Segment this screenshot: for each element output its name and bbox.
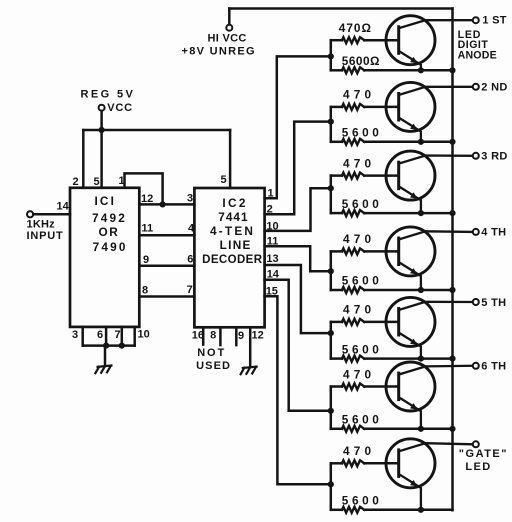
wire stage6 base lead right (364, 385, 399, 388)
wire IC2 pin 8 stub (219, 327, 222, 345)
transistor Q7 collector (399, 443, 472, 451)
wire IC2 pin11 to stage4 node (265, 246, 331, 271)
svg-text:5600: 5600 (342, 197, 383, 211)
svg-text:5600: 5600 (342, 126, 383, 140)
svg-text:5: 5 (94, 176, 100, 188)
svg-text:5600: 5600 (342, 274, 383, 288)
transistor Q4 emitter arrow (410, 268, 418, 275)
svg-text:470: 470 (343, 156, 375, 170)
transistor Q3 circle (386, 151, 435, 200)
junction stage4 emitter (418, 287, 424, 293)
svg-text:470: 470 (343, 444, 375, 458)
transistor Q3 emitter arrow (410, 192, 418, 199)
wire stage6 emitter line to rail (364, 428, 452, 431)
wire IC1 pin8 to IC2 pin7 (139, 295, 194, 298)
transistor Q5 circle (386, 297, 435, 346)
wire IC1 pin12 to IC2 pin3 (139, 203, 194, 206)
svg-text:4 TH: 4 TH (481, 227, 506, 239)
wire stage2 base lead right (364, 106, 399, 109)
svg-text:3 RD: 3 RD (481, 151, 507, 163)
resistor R3 470 (342, 104, 364, 110)
junction IC1 pin6 on bus (103, 343, 109, 349)
transistor Q1 base bar (397, 27, 400, 54)
op-amp IC1 box (7492/7490) (70, 188, 139, 327)
svg-text:IC2: IC2 (222, 196, 248, 210)
wire top rail horizontal to emitter-rail corner (229, 7, 452, 10)
wire stage3 emitter line to rail (364, 212, 452, 215)
svg-text:"GATE": "GATE" (459, 448, 508, 460)
wire stage5 left vertical (330, 322, 333, 359)
transistor Q5 emitter (399, 333, 421, 359)
svg-text:7: 7 (187, 284, 193, 296)
wire stage7 base lead left (331, 462, 342, 465)
transistor Q6 emitter (399, 398, 421, 429)
wire IC2 pin13 to stage5 node (265, 265, 331, 333)
resistor R11 470 (342, 384, 364, 390)
wire VCC to IC2 pin 5 (229, 130, 232, 188)
resistor R6 5600 (342, 210, 364, 216)
resistor R2 5600Ω (342, 67, 364, 73)
wire stage4 left vertical (330, 251, 333, 290)
transistor Q7 base bar (397, 450, 400, 477)
wire IC2 pin2 to stage2 node (265, 122, 331, 215)
resistor R14 5600 (342, 507, 364, 513)
svg-text:9: 9 (238, 330, 244, 342)
op-amp IC2 box (7441 decoder) (194, 188, 264, 327)
svg-text:5: 5 (221, 174, 227, 186)
terminal stage5 (473, 299, 479, 305)
junction stage7 node (328, 481, 334, 487)
junction stage5 rail (449, 356, 455, 362)
transistor Q6 emitter arrow (410, 403, 418, 410)
wire IC2 pin14 to stage6 node (265, 280, 331, 411)
transistor Q6 circle (386, 362, 435, 411)
terminal stage3 (473, 153, 479, 159)
svg-text:5600: 5600 (342, 342, 383, 356)
svg-text:LINE: LINE (220, 238, 252, 252)
svg-text:LED: LED (465, 461, 491, 473)
wire stage4 base lead right (364, 250, 399, 253)
transistor Q3 collector (399, 156, 472, 164)
wire input to IC1 pin 14 (33, 213, 70, 216)
junction stage3 rail (449, 210, 455, 216)
wire IC2 pin10 to stage3 node (265, 188, 331, 231)
transistor Q1 circle (386, 16, 435, 65)
wire stage5 base lead right (364, 321, 399, 324)
svg-text:13: 13 (266, 253, 278, 265)
wire IC2 pin 9 stub (235, 327, 238, 345)
wire VCC to IC1 pin 2 (82, 130, 85, 188)
svg-text:NOT: NOT (197, 347, 226, 359)
svg-text:7441: 7441 (218, 210, 248, 224)
svg-text:DECODER: DECODER (202, 254, 263, 266)
transistor Q2 circle (386, 82, 435, 131)
svg-text:OR: OR (98, 225, 119, 239)
wire emitter rail vertical (right bus) (451, 9, 454, 511)
wire stage7 left vertical (330, 463, 333, 510)
svg-text:9: 9 (143, 254, 149, 266)
transistor Q1 emitter arrow (410, 57, 418, 64)
wire IC1 pin9 to IC2 pin6 (139, 265, 194, 268)
transistor Q1 collector (399, 20, 472, 28)
wire stage6 left vertical (330, 387, 333, 429)
svg-text:REG 5V: REG 5V (81, 89, 136, 101)
resistor R8 5600 (342, 287, 364, 293)
resistor R7 470 (342, 248, 364, 254)
svg-text:INPUT: INPUT (27, 230, 64, 242)
terminal HI VCC (226, 25, 232, 31)
svg-text:7: 7 (115, 329, 121, 341)
ground IC2 pin 12 (243, 367, 257, 368)
terminal 1KHz input (27, 211, 33, 217)
wire stage5 base lead left (331, 321, 342, 324)
wire IC2 pin 16 stub (202, 327, 205, 344)
junction stage6 rail (449, 426, 455, 432)
transistor Q3 emitter (399, 187, 421, 214)
transistor Q2 base bar (397, 94, 400, 121)
svg-text:470: 470 (343, 232, 375, 246)
svg-text:ANODE: ANODE (458, 50, 497, 62)
svg-text:1KHz: 1KHz (27, 218, 56, 230)
svg-text:11: 11 (142, 223, 154, 235)
transistor Q5 collector (399, 302, 472, 310)
junction stage4 node (328, 268, 334, 274)
svg-text:2: 2 (73, 176, 79, 188)
wire stage3 bottom lead left (331, 212, 342, 215)
junction stage3 emitter (418, 210, 424, 216)
junction pin1-loop on pin12 wire (160, 201, 166, 207)
svg-text:8: 8 (142, 285, 148, 297)
junction stage4 rail (449, 287, 455, 293)
transistor Q1 emitter (399, 51, 421, 70)
wire stage7 emitter line to rail (364, 509, 452, 512)
svg-text:8: 8 (210, 330, 216, 342)
wire stage1 bottom lead left (331, 69, 342, 72)
svg-text:470Ω: 470Ω (339, 21, 372, 35)
wire IC2 pin1 to stage1 node (265, 56, 331, 198)
wire stage7 base lead right (364, 462, 399, 465)
wire stage4 bottom lead left (331, 289, 342, 292)
svg-text:ICI: ICI (94, 194, 116, 208)
transistor Q7 circle (386, 439, 435, 488)
junction stage7 emitter (418, 507, 424, 513)
wire HI VCC stub up to top rail (228, 9, 231, 25)
terminal stage2 (473, 84, 479, 90)
terminal stage4 (473, 229, 479, 235)
junction VCC node (99, 127, 105, 133)
wire IC2 pin 12 to ground (249, 327, 252, 366)
svg-text:12: 12 (252, 330, 264, 342)
junction stage5 node (328, 330, 334, 336)
wire stage2 emitter line to rail (364, 141, 452, 144)
wire stage2 left vertical (330, 107, 333, 142)
svg-text:470: 470 (343, 367, 375, 381)
wire stage4 emitter line to rail (364, 289, 452, 292)
wire stage1 left vertical (330, 40, 333, 70)
svg-text:3: 3 (72, 329, 78, 341)
transistor Q5 base bar (397, 309, 400, 336)
transistor Q6 base bar (397, 373, 400, 400)
wire stage1 base lead left (331, 39, 342, 42)
transistor Q7 emitter (399, 474, 421, 510)
transistor Q4 collector (399, 231, 472, 239)
svg-text:3: 3 (187, 193, 193, 205)
junction IC1 pin7 on bus (119, 343, 125, 349)
resistor R1 470Ω (342, 37, 364, 43)
transistor Q2 emitter arrow (410, 124, 418, 131)
wire stage2 bottom lead left (331, 141, 342, 144)
junction stage1 node (328, 53, 334, 59)
wire stage5 emitter line to rail (364, 357, 452, 360)
transistor Q3 base bar (397, 162, 400, 189)
ground IC1 (98, 366, 112, 367)
transistor Q2 collector (399, 87, 472, 95)
svg-text:5600: 5600 (342, 494, 383, 508)
wire REG VCC stub down to node (100, 111, 103, 130)
wire IC1 pin 7 stub (121, 327, 124, 346)
wire IC1 pin 3 stub (81, 327, 84, 346)
terminal stage6 (473, 363, 479, 369)
transistor Q4 base bar (397, 238, 400, 265)
junction stage2 rail (449, 139, 455, 145)
wire stage1 emitter line to rail (364, 69, 452, 72)
svg-text:5600: 5600 (342, 413, 383, 427)
resistor R4 5600 (342, 139, 364, 145)
resistor R9 470 (342, 319, 364, 325)
wire stage5 bottom lead left (331, 357, 342, 360)
svg-text:5 TH: 5 TH (481, 297, 506, 309)
transistor Q6 collector (399, 366, 472, 375)
wire stage6 bottom lead left (331, 428, 342, 431)
svg-text:HI VCC: HI VCC (208, 33, 247, 45)
wire IC2 pin15 to stage7 node (265, 296, 331, 484)
wire stage1 base lead right (364, 39, 399, 42)
terminal REG VCC (99, 105, 105, 111)
wire stage4 base lead left (331, 250, 342, 253)
resistor R13 470 (342, 460, 364, 466)
wire VCC distribution horizontal (83, 129, 230, 132)
wire stage3 base lead left (331, 174, 342, 177)
wire IC1 pin 10 stub (133, 327, 136, 346)
terminal stage7 (473, 441, 479, 447)
svg-text:7490: 7490 (93, 240, 128, 254)
svg-text:14: 14 (57, 201, 70, 213)
wire IC1 pin 6 stub (105, 327, 108, 346)
wire stage3 left vertical (330, 176, 333, 214)
wire stage2 base lead left (331, 106, 342, 109)
wire IC1 pin 1 loop (125, 173, 163, 204)
junction stage2 emitter (418, 139, 424, 145)
wire VCC to IC1 pin 5 (100, 130, 103, 188)
transistor Q5 emitter arrow (410, 339, 418, 346)
svg-text:+8V UNREG: +8V UNREG (182, 46, 256, 58)
transistor Q7 emitter arrow (410, 480, 418, 487)
transistor Q4 circle (386, 227, 435, 276)
svg-text:4-TEN: 4-TEN (210, 224, 255, 238)
transistor Q4 emitter (399, 262, 421, 290)
wire IC1 bus to ground (104, 346, 107, 366)
junction stage2 node (328, 119, 334, 125)
junction stage3 node (328, 185, 334, 191)
junction stage6 emitter (418, 426, 424, 432)
junction stage1 emitter (418, 67, 424, 73)
resistor R10 5600 (342, 356, 364, 362)
wire stage3 base lead right (364, 174, 399, 177)
svg-text:USED: USED (196, 360, 231, 372)
svg-text:6 TH: 6 TH (481, 361, 506, 373)
svg-text:4: 4 (188, 223, 195, 235)
svg-text:2 ND: 2 ND (481, 82, 507, 94)
wire IC1 ground bus (83, 344, 135, 347)
wire stage7 bottom lead left (331, 509, 342, 512)
wire IC1 pin11 to IC2 pin4 (139, 234, 194, 237)
resistor R5 470 (342, 173, 364, 179)
svg-text:10: 10 (138, 329, 150, 341)
svg-text:VCC: VCC (107, 102, 133, 114)
wire stage6 base lead left (331, 385, 342, 388)
junction stage1 rail (449, 67, 455, 73)
svg-text:6: 6 (187, 254, 193, 266)
transistor Q2 emitter (399, 118, 421, 142)
svg-text:6: 6 (97, 329, 103, 341)
terminal stage1 (473, 17, 479, 23)
svg-text:470: 470 (343, 88, 375, 102)
junction stage5 emitter (418, 356, 424, 362)
svg-text:470: 470 (343, 303, 375, 317)
junction stage6 node (328, 408, 334, 414)
svg-text:1 ST: 1 ST (482, 15, 506, 27)
resistor R12 5600 (342, 426, 364, 432)
svg-text:5600Ω: 5600Ω (342, 54, 380, 68)
svg-text:7492: 7492 (92, 211, 127, 225)
